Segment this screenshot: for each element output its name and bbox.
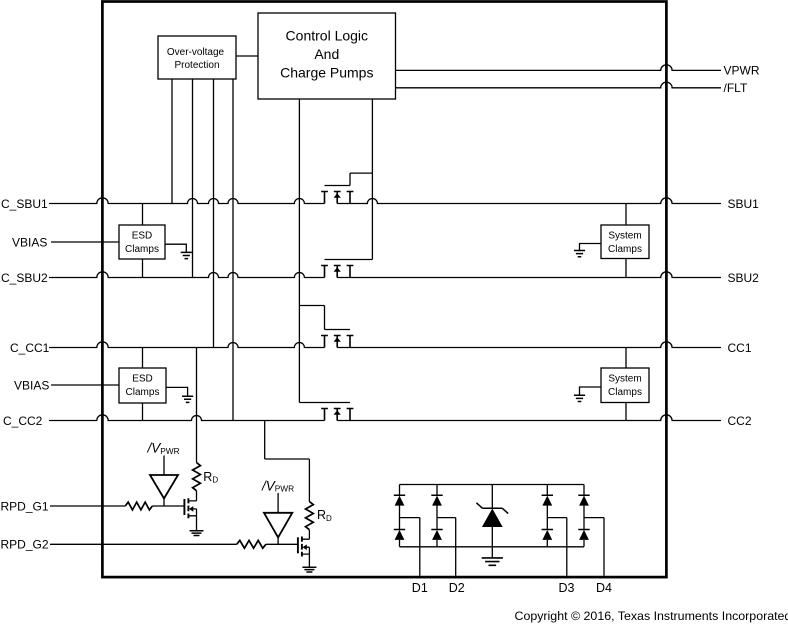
block U2 Control Logic And Charge Pumps [258,13,396,99]
wire bridge top rail [400,484,585,486]
wire U1 to U2 [236,55,258,57]
svg-text:VBIAS: VBIAS [12,235,47,249]
resistor RPD_G1 series [125,502,152,510]
transistor pass FET CC2 [299,403,353,421]
wire RD2 to C_CC2 [265,421,310,502]
wire VBIAS 2 [51,384,119,386]
wire D1 tap [400,518,420,576]
block System Clamps 2 [601,368,649,403]
resistor RPD_G2 series [237,540,266,548]
svg-text:Clamps: Clamps [608,244,642,255]
block System Clamps 1 [601,225,649,259]
transistor pass FET CC1 [299,306,353,348]
wire SBU1 right [337,198,721,204]
inverter /VPWR 2 [264,493,292,544]
ground SYS1 [574,244,601,257]
svg-text:Clamps: Clamps [125,244,159,255]
wire ESD1 to C_SBU1 [142,204,144,226]
zener diode Z1 [476,485,508,558]
svg-text:Control Logic: Control Logic [286,27,369,43]
svg-text:Charge Pumps: Charge Pumps [280,64,373,80]
ground zener [482,558,503,565]
svg-text:C_SBU2: C_SBU2 [1,271,48,285]
transistor pass FET SBU2 [321,260,372,278]
resistor RD2 [306,502,314,530]
svg-text:Protection: Protection [174,60,219,71]
wire ESD1 to C_SBU2 [142,259,144,278]
svg-text:CC1: CC1 [728,341,752,355]
wire OVP to C_SBU1 [171,79,173,204]
diode pair D4 branch [578,485,589,547]
block ESD Clamps 1 [119,225,165,259]
wire ESD2 to C_CC2 [142,403,144,421]
diode pair D2 branch [431,485,442,547]
svg-text:/FLT: /FLT [724,81,748,95]
svg-text:Over-voltage: Over-voltage [167,47,225,58]
svg-text:SBU1: SBU1 [728,197,760,211]
svg-text:And: And [314,46,339,62]
wire SYS2 to CC1 [625,348,627,369]
wire SBU2 right [337,272,721,278]
ground ESD2 [166,387,193,402]
ground SYS2 [574,387,601,402]
wire CC1 right [337,342,721,348]
wire control gate bus 1 [298,99,300,403]
wire ESD2 to C_CC1 [142,348,144,369]
resistor RD1 [193,463,201,491]
ground Q1 [190,531,204,536]
svg-text:D3: D3 [559,581,575,595]
ground Q2 [302,567,316,572]
block ESD Clamps 2 [119,368,166,403]
svg-text:D4: D4 [596,581,612,595]
svg-text:D1: D1 [412,581,428,595]
svg-text:SBU2: SBU2 [728,271,760,285]
inverter /VPWR 1 [150,456,178,507]
diode pair D1 branch [394,485,405,547]
svg-text:D2: D2 [449,581,465,595]
svg-text:ESD: ESD [132,231,153,242]
wire D4 tap [584,518,604,576]
svg-text:Copyright © 2016, Texas Instru: Copyright © 2016, Texas Instruments Inco… [515,609,788,623]
svg-text:System: System [608,374,641,385]
svg-text:ESD: ESD [132,374,153,385]
svg-text:VBIAS: VBIAS [14,378,49,392]
block U1 Over-voltage Protection [158,36,236,79]
wire D2 tap [437,518,456,576]
svg-text:Clamps: Clamps [608,387,642,398]
ground ESD1 [165,244,192,258]
svg-text:C_CC1: C_CC1 [10,341,50,355]
wire CC2 right [337,415,721,421]
wire C_SBU1 left [49,198,325,204]
diode pair D3 branch [542,485,553,547]
wire OVP to C_CC1 [213,79,215,348]
transistor pass FET SBU1 [321,173,372,203]
wire RPD_G1 [50,505,184,507]
wire D3 tap [547,518,567,576]
wire VPWR [396,65,722,71]
wire OVP to C_CC2 [232,79,234,421]
wire SYS2 to CC2 [625,403,627,421]
svg-text:Clamps: Clamps [126,387,160,398]
wire C_SBU2 left [49,272,325,278]
wire RPD_G2 [50,543,298,545]
svg-text:RPD_G2: RPD_G2 [1,538,49,552]
wire bridge bottom rail [400,546,585,548]
wire SYS1 to SBU2 [625,259,627,278]
svg-text:C_SBU1: C_SBU1 [1,197,48,211]
wire /FLT [396,82,722,88]
wire control gate bus 2 [371,99,373,260]
wire C_CC2 left [49,415,325,421]
svg-text:VPWR: VPWR [724,64,760,78]
transistor Q1 [184,491,196,531]
chip boundary box [102,2,666,578]
transistor Q2 [298,530,310,568]
wire RD1 to C_CC1 [196,348,198,463]
wire SYS1 to SBU1 [625,204,627,226]
svg-text:C_CC2: C_CC2 [3,414,43,428]
svg-text:System: System [608,231,641,242]
wire VBIAS 1 [51,241,119,243]
wire C_CC1 left [49,342,325,348]
wire OVP to C_SBU2 [192,79,194,278]
svg-text:CC2: CC2 [728,414,752,428]
svg-text:RPD_G1: RPD_G1 [1,499,49,513]
